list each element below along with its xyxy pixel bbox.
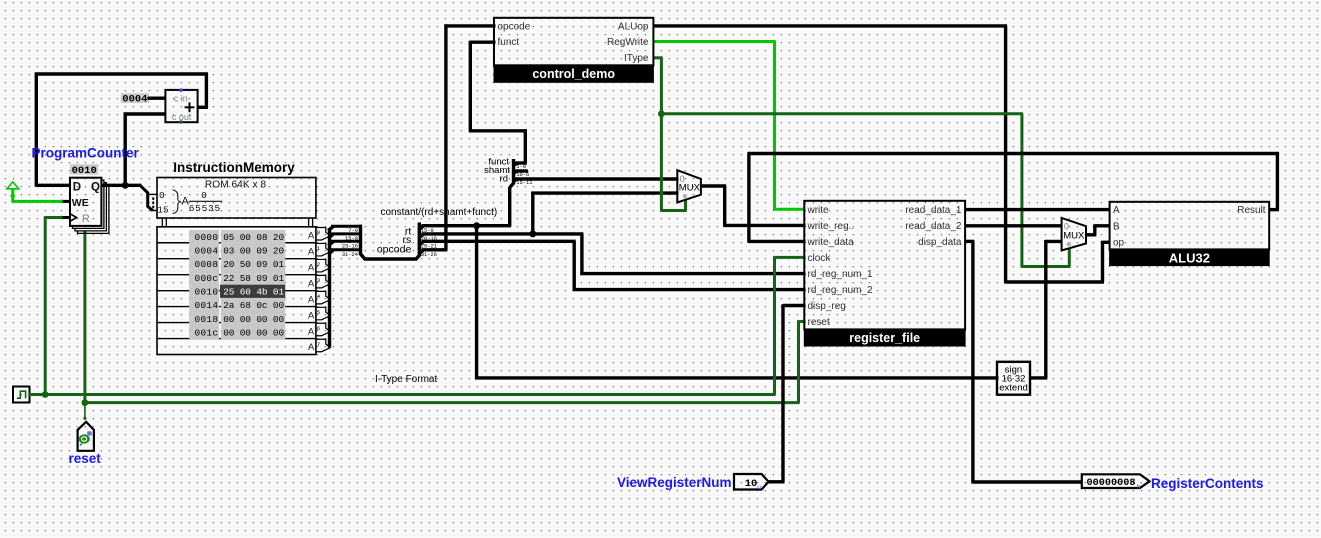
svg-text:65535: 65535 [189, 203, 221, 214]
svg-text:05 00 08 20: 05 00 08 20 [223, 232, 284, 243]
svg-text:B: B [1113, 221, 1120, 232]
svg-text:IType: IType [624, 53, 649, 64]
svg-text:ProgramCounter: ProgramCounter [32, 145, 140, 160]
svg-text:read_data_1: read_data_1 [905, 205, 962, 216]
svg-text:15-8: 15-8 [345, 236, 358, 242]
svg-text:10: 10 [745, 478, 758, 490]
svg-text:I-Type Format: I-Type Format [375, 374, 437, 385]
svg-text:A: A [308, 246, 315, 256]
svg-text:5: 5 [317, 309, 320, 316]
svg-text:31-24: 31-24 [342, 252, 358, 258]
svg-text:0010: 0010 [194, 287, 218, 298]
svg-text:u: u [757, 484, 761, 491]
svg-text:0018: 0018 [194, 314, 218, 325]
svg-text:0: 0 [201, 190, 207, 201]
svg-text:rd: rd [500, 174, 508, 185]
svg-text:Result: Result [1237, 205, 1266, 216]
svg-text:R: R [82, 213, 90, 225]
svg-text:ViewRegisterNum: ViewRegisterNum [617, 475, 732, 490]
svg-text:A: A [308, 326, 315, 336]
svg-text:25 60 4b 01: 25 60 4b 01 [223, 287, 284, 298]
svg-text:opcode: opcode [498, 21, 531, 32]
svg-text:0010: 0010 [72, 165, 97, 177]
svg-text:extend: extend [999, 383, 1028, 394]
svg-text:001c: 001c [194, 327, 218, 338]
svg-text:A: A [308, 278, 315, 288]
svg-text:reset: reset [69, 451, 102, 466]
svg-text:00 00 00 00: 00 00 00 00 [223, 327, 284, 338]
svg-text:opcode: opcode [377, 244, 412, 256]
svg-text:funct: funct [498, 37, 520, 48]
svg-text:15: 15 [157, 204, 169, 215]
svg-text:0014: 0014 [194, 300, 218, 311]
svg-text:MUX: MUX [679, 183, 701, 194]
svg-text:constant/(rd+shamt+funct): constant/(rd+shamt+funct) [381, 207, 498, 218]
svg-text:write_reg..: write_reg.. [807, 221, 855, 232]
svg-text:ALUop: ALUop [618, 21, 649, 32]
svg-text:A: A [308, 262, 315, 272]
svg-text:WE: WE [72, 197, 89, 209]
svg-text:5-0: 5-0 [516, 164, 526, 170]
svg-text:2: 2 [317, 261, 320, 268]
svg-text:7: 7 [317, 341, 320, 348]
svg-text:31-26: 31-26 [421, 252, 437, 258]
svg-text:control_demo: control_demo [532, 67, 615, 81]
svg-text:3: 3 [317, 277, 320, 284]
svg-text:0004: 0004 [122, 93, 147, 105]
svg-text:2a 68 0c 00: 2a 68 0c 00 [223, 300, 284, 311]
svg-text:00000008: 00000008 [1087, 478, 1136, 489]
svg-text:000c: 000c [194, 273, 218, 284]
svg-text:rd_reg_num_1: rd_reg_num_1 [808, 269, 873, 280]
svg-text:A: A [308, 342, 315, 352]
svg-text:25-21: 25-21 [421, 244, 437, 250]
svg-text:write_data: write_data [807, 237, 855, 248]
svg-text:disp_data: disp_data [918, 237, 962, 248]
svg-text:A: A [308, 294, 315, 304]
svg-text:reset: reset [808, 317, 830, 328]
svg-text:register_file: register_file [849, 331, 920, 345]
svg-text:D: D [73, 181, 81, 193]
svg-text:MUX: MUX [1063, 230, 1085, 241]
svg-text:0004: 0004 [194, 246, 218, 257]
svg-text:A: A [308, 310, 315, 320]
svg-text:h: h [1137, 484, 1141, 491]
svg-text:RegisterContents: RegisterContents [1151, 476, 1264, 491]
svg-text:clock: clock [808, 253, 832, 264]
svg-text:ROM 64K x 8: ROM 64K x 8 [205, 179, 266, 190]
svg-text:Q: Q [91, 181, 100, 193]
svg-text:0: 0 [159, 190, 165, 201]
svg-text:ALU32: ALU32 [1169, 250, 1210, 265]
svg-text:A: A [308, 231, 315, 241]
svg-text:write: write [807, 205, 830, 216]
svg-text:00 00 00 00: 00 00 00 00 [223, 314, 284, 325]
svg-text:A: A [1113, 205, 1120, 216]
svg-text:RegWrite: RegWrite [607, 37, 649, 48]
svg-text:0008: 0008 [194, 259, 218, 270]
svg-text:15-11: 15-11 [516, 180, 532, 186]
svg-text:7-0: 7-0 [348, 228, 358, 234]
svg-text:20 50 09 01: 20 50 09 01 [223, 259, 284, 270]
svg-text:10-6: 10-6 [516, 172, 529, 178]
svg-text:20-16: 20-16 [421, 236, 437, 242]
svg-text:disp_reg: disp_reg [808, 301, 846, 312]
svg-text:03 00 09 20: 03 00 09 20 [223, 246, 284, 257]
svg-text:0000: 0000 [194, 232, 218, 243]
svg-text:read_data_2: read_data_2 [905, 221, 962, 232]
svg-text:rd_reg_num_2: rd_reg_num_2 [808, 285, 873, 296]
svg-text:c in: c in [174, 94, 188, 104]
svg-text:15-0: 15-0 [421, 228, 434, 234]
svg-text:InstructionMemory: InstructionMemory [173, 160, 295, 175]
svg-text:op: op [1113, 238, 1125, 249]
svg-text:6: 6 [317, 325, 320, 332]
svg-text:22 58 09 01: 22 58 09 01 [223, 273, 284, 284]
svg-text:23-16: 23-16 [342, 243, 358, 249]
